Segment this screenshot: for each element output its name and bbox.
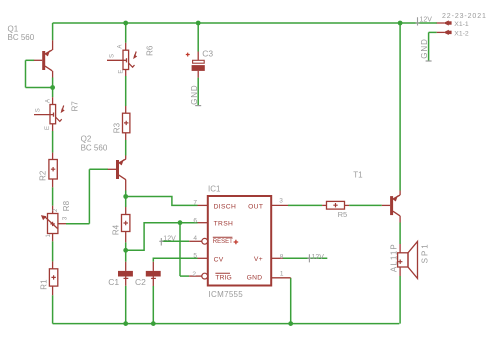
svg-text:BC 560: BC 560 — [8, 33, 35, 42]
svg-text:5: 5 — [193, 252, 197, 259]
svg-text:RESET: RESET — [213, 239, 233, 245]
svg-text:R8: R8 — [62, 200, 71, 211]
svg-text:S: S — [109, 54, 115, 58]
svg-text:R3: R3 — [112, 122, 121, 133]
svg-text:C3: C3 — [202, 48, 213, 58]
svg-text:OUT: OUT — [248, 203, 263, 210]
svg-text:C1: C1 — [108, 277, 119, 287]
svg-text:22-23-2021: 22-23-2021 — [442, 13, 487, 20]
svg-text:DISCH: DISCH — [214, 203, 237, 210]
svg-text:2: 2 — [192, 271, 196, 278]
svg-text:BC 560: BC 560 — [81, 144, 108, 153]
svg-text:1: 1 — [280, 270, 284, 277]
svg-text:8: 8 — [280, 254, 284, 261]
svg-text:7: 7 — [193, 200, 197, 207]
svg-text:12V: 12V — [420, 16, 433, 23]
svg-text:TRSH: TRSH — [214, 220, 234, 227]
svg-text:Q2: Q2 — [81, 134, 92, 143]
svg-text:A: A — [45, 99, 51, 103]
svg-text:6: 6 — [193, 218, 197, 225]
svg-text:4: 4 — [193, 235, 197, 242]
svg-text:12V: 12V — [163, 235, 176, 242]
svg-text:R2: R2 — [38, 170, 47, 181]
svg-text:X1-1: X1-1 — [454, 21, 469, 28]
svg-text:R1: R1 — [39, 279, 48, 290]
svg-text:A: A — [118, 45, 124, 49]
svg-text:V+: V+ — [254, 256, 263, 263]
svg-text:X1-2: X1-2 — [454, 31, 469, 38]
svg-text:CV: CV — [214, 257, 224, 264]
svg-text:GND: GND — [420, 38, 429, 58]
svg-text:GND: GND — [190, 84, 199, 104]
svg-text:TRIG: TRIG — [215, 274, 231, 281]
svg-text:T1: T1 — [353, 171, 363, 180]
svg-text:IC1: IC1 — [208, 185, 221, 194]
svg-text:3: 3 — [279, 198, 283, 205]
svg-text:SP1: SP1 — [421, 242, 430, 263]
svg-text:GND: GND — [247, 274, 263, 281]
svg-text:Q1: Q1 — [8, 25, 19, 34]
svg-text:R4: R4 — [112, 224, 121, 235]
svg-text:12V: 12V — [312, 254, 325, 261]
svg-text:E: E — [45, 126, 51, 130]
svg-text:S: S — [35, 108, 41, 112]
svg-text:AL11P: AL11P — [390, 243, 399, 272]
svg-text:R6: R6 — [146, 45, 155, 56]
svg-text:R7: R7 — [71, 101, 80, 112]
svg-text:R5: R5 — [338, 210, 348, 219]
svg-text:C2: C2 — [135, 277, 146, 287]
svg-text:ICM7555: ICM7555 — [209, 290, 244, 299]
svg-text:E: E — [118, 70, 124, 74]
